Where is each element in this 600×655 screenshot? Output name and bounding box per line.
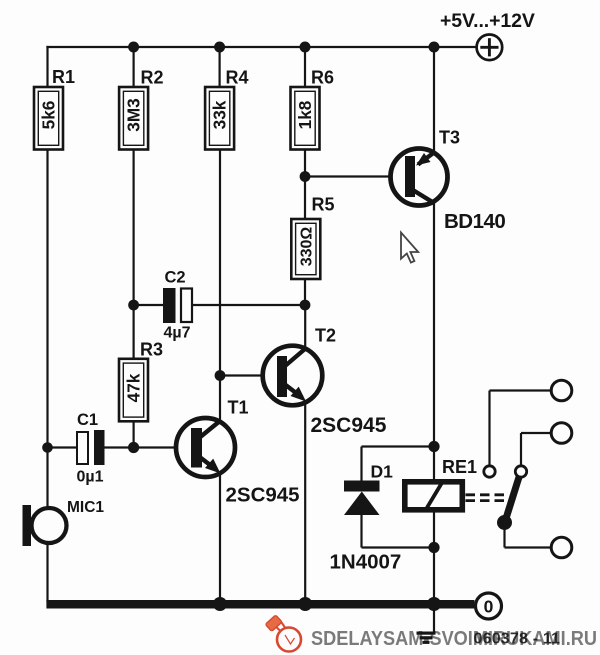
- microphone MIC1: [23, 505, 67, 546]
- svg-text:C1: C1: [77, 411, 98, 429]
- wire T3 base: [305, 175, 405, 177]
- wire R1 column top: [46, 46, 48, 87]
- capacitor C2: [163, 288, 192, 323]
- wire T1 emitter down: [219, 474, 221, 603]
- wire R3 bottom: [133, 421, 135, 447]
- node C1 left: [42, 442, 53, 453]
- svg-text:R5: R5: [312, 195, 335, 215]
- transistor T2: [263, 346, 323, 406]
- resistor R2: [119, 87, 148, 150]
- ground: [417, 632, 436, 644]
- svg-text:R6: R6: [311, 68, 334, 88]
- wire C1 left: [48, 446, 78, 448]
- wire NO contact to terminal: [521, 433, 551, 466]
- node T1 collector / T2 base: [215, 370, 226, 381]
- svg-text:0µ1: 0µ1: [77, 469, 104, 486]
- node R5/C2/T2 collector: [300, 300, 311, 311]
- watermark bulb logo: [265, 615, 301, 652]
- svg-text:T1: T1: [228, 398, 249, 418]
- wire R2 column top: [133, 47, 135, 87]
- diode D1: [344, 481, 380, 516]
- wire R6 bottom to node: [304, 150, 306, 220]
- node R2 top: [128, 42, 139, 53]
- svg-text:BD140: BD140: [444, 210, 505, 233]
- resistor R6: [291, 87, 320, 150]
- terminal bottom: [551, 537, 572, 558]
- svg-text:2SC945: 2SC945: [226, 484, 300, 507]
- terminal middle: [551, 423, 572, 444]
- svg-text:1N4007: 1N4007: [330, 551, 402, 574]
- switch contact NO: [515, 466, 526, 477]
- wire T2 collector up: [304, 305, 306, 349]
- wire R1 bottom to C1 node: [46, 150, 48, 509]
- svg-text:D1: D1: [371, 462, 394, 482]
- wire mechanical link dashed: [466, 495, 510, 501]
- switch pivot: [497, 515, 512, 530]
- node C2 left: [128, 300, 139, 311]
- svg-text:47k: 47k: [124, 373, 144, 402]
- terminal 0: [476, 593, 502, 619]
- wire R4 bottom to T2 base node: [219, 150, 221, 376]
- wire R2 bottom to C2 node: [133, 150, 135, 306]
- capacitor C1: [77, 430, 105, 465]
- wire D1 top branch: [362, 445, 435, 447]
- svg-text:060378 - 11: 060378 - 11: [474, 631, 561, 648]
- svg-text:RE1: RE1: [442, 457, 477, 477]
- wire R3 top: [133, 305, 135, 359]
- node T3 column top: [429, 42, 440, 53]
- wire C2 left: [134, 304, 163, 306]
- node D1 bottom: [428, 542, 439, 553]
- resistor R5: [291, 219, 320, 279]
- node relay bottom rail: [427, 597, 441, 611]
- wire D1 bottom branch: [360, 515, 362, 548]
- relay RE1: [405, 482, 463, 510]
- wire T2 emitter down: [304, 402, 306, 602]
- wire C2 right: [192, 304, 305, 306]
- node D1 top: [428, 441, 439, 452]
- switch contact NC: [484, 466, 495, 477]
- node R6/R5/T3 base: [300, 171, 311, 182]
- wire top supply rail: [46, 46, 477, 48]
- resistor R1: [34, 87, 63, 150]
- svg-text:0: 0: [484, 597, 494, 617]
- wire T3 collector down to relay: [433, 201, 435, 481]
- wire R5 bottom to node: [304, 279, 306, 305]
- switch lever: [506, 476, 520, 521]
- svg-text:T2: T2: [315, 326, 336, 346]
- svg-text:R4: R4: [226, 68, 249, 88]
- wire relay bottom: [433, 512, 435, 602]
- svg-text:330Ω: 330Ω: [298, 227, 315, 267]
- wire ground stub: [433, 609, 435, 632]
- svg-text:1k8: 1k8: [295, 100, 315, 129]
- wire bottom ground rail: [46, 600, 474, 609]
- mouse cursor: [401, 233, 418, 263]
- terminal top: [551, 380, 572, 401]
- wire R4 column top: [219, 47, 221, 87]
- node R4 top: [214, 42, 225, 53]
- resistor R3: [119, 359, 148, 422]
- wire T2 base: [220, 374, 277, 376]
- svg-text:2SC945: 2SC945: [311, 414, 387, 437]
- svg-text:C2: C2: [165, 269, 186, 287]
- wire C1 right to T1 base: [105, 446, 192, 448]
- svg-text:MIC1: MIC1: [67, 499, 104, 516]
- wire NC contact to terminal: [490, 391, 552, 467]
- node T2 emitter bottom: [298, 597, 312, 611]
- svg-text:4µ7: 4µ7: [164, 325, 191, 342]
- wire T3 emitter column: [433, 47, 435, 154]
- svg-text:R2: R2: [141, 68, 164, 88]
- node C1/R3/T1 base: [128, 442, 139, 453]
- transistor T3: [391, 149, 448, 206]
- node R6 top: [300, 42, 311, 53]
- wire mic bottom: [46, 543, 48, 602]
- transistor T1: [176, 418, 235, 477]
- wire T1 collector up: [219, 376, 221, 422]
- svg-text:5k6: 5k6: [39, 101, 59, 130]
- node T1 emitter bottom: [213, 597, 227, 611]
- resistor R4: [205, 87, 234, 150]
- svg-text:R3: R3: [140, 340, 163, 360]
- svg-text:R1: R1: [52, 67, 75, 87]
- wire R6 column top: [304, 47, 306, 87]
- terminal +V: [477, 35, 503, 61]
- svg-text:33k: 33k: [210, 100, 230, 129]
- wire pole to terminal: [505, 529, 552, 548]
- svg-text:T3: T3: [439, 128, 460, 148]
- svg-text:3M3: 3M3: [124, 98, 144, 131]
- svg-text:+5V...+12V: +5V...+12V: [440, 10, 535, 32]
